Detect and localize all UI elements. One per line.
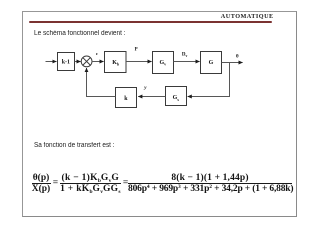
wire input arrow bbox=[46, 61, 57, 63]
red header rule bbox=[29, 21, 272, 23]
wire Gs to k bbox=[138, 96, 165, 98]
caption 1 bbox=[34, 30, 126, 37]
equation fraction numeric bbox=[128, 173, 292, 194]
svg-text:G: G bbox=[209, 60, 214, 66]
svg-text:k-1: k-1 bbox=[62, 60, 70, 66]
svg-text:θ: θ bbox=[236, 55, 239, 60]
wire Kb to Gv bbox=[126, 61, 152, 63]
svg-text:Dv: Dv bbox=[182, 53, 188, 58]
equation fraction theta/X bbox=[32, 173, 51, 194]
wire Gv to G bbox=[174, 61, 200, 63]
wire summer to Kb bbox=[92, 61, 104, 63]
wire output arrow bbox=[222, 62, 243, 64]
svg-text:Gs: Gs bbox=[173, 95, 180, 102]
block G bbox=[201, 52, 222, 74]
svg-text:Gv: Gv bbox=[159, 60, 166, 67]
block Gs bbox=[166, 87, 187, 106]
block Gv bbox=[153, 52, 174, 74]
equals 1 bbox=[53, 178, 58, 188]
wire k-1 to summer bbox=[75, 61, 81, 63]
caption 2 bbox=[34, 142, 115, 149]
svg-text:y: y bbox=[143, 86, 147, 91]
svg-text:P: P bbox=[135, 48, 138, 53]
block K1 (k-1) bbox=[58, 53, 75, 71]
wire k back up to summer bbox=[87, 68, 116, 97]
equals 2 bbox=[123, 178, 128, 188]
block k bbox=[116, 88, 137, 108]
wire takeoff down to feedback row bbox=[188, 63, 230, 97]
block Kb bbox=[105, 52, 127, 73]
summing junction S1 bbox=[81, 56, 92, 67]
slide frame bbox=[22, 11, 297, 217]
svg-text:ε: ε bbox=[96, 51, 98, 56]
header title bbox=[221, 13, 301, 20]
svg-text:Kb: Kb bbox=[112, 60, 120, 67]
equation fraction symbolic bbox=[60, 173, 121, 194]
